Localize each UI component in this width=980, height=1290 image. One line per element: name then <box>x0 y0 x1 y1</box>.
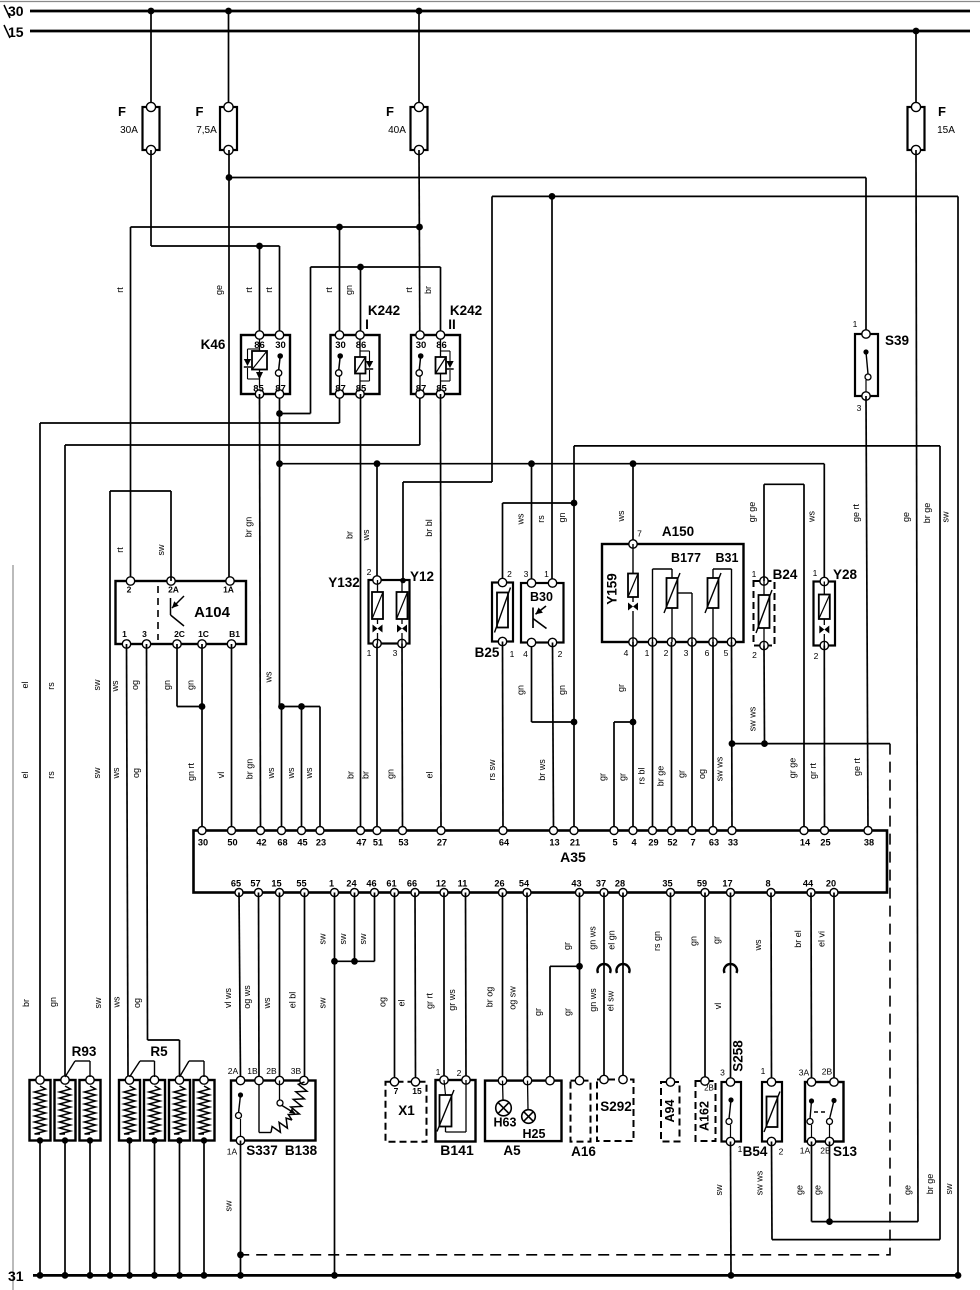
unit A94 <box>661 1078 680 1142</box>
wire Y132 pin3 gn <box>386 644 403 831</box>
label K242 II 86 (br) <box>423 286 433 294</box>
svg-text:sw: sw <box>92 767 102 779</box>
sensor B24 <box>754 577 775 650</box>
svg-text:ws: ws <box>262 997 272 1009</box>
svg-text:50: 50 <box>227 838 237 848</box>
wire A35-55 el bl <box>288 893 305 1081</box>
svg-text:K242: K242 <box>368 303 400 318</box>
svg-text:br gn: br gn <box>244 517 254 538</box>
node A35-43 branch <box>576 963 583 970</box>
label Y12 <box>410 569 434 584</box>
labels B24 <box>752 567 798 660</box>
svg-text:el gn: el gn <box>607 930 617 950</box>
page left edge mark <box>12 565 14 1290</box>
svg-text:S292: S292 <box>600 1099 632 1114</box>
bus 30 <box>4 3 970 19</box>
svg-text:br bl: br bl <box>424 519 434 537</box>
glow plug R93-2 <box>55 1076 76 1144</box>
node ws split 2 <box>298 703 305 710</box>
wire F3 down to K242II pin 30 (rt) <box>404 150 420 335</box>
svg-text:gn: gn <box>186 680 196 690</box>
svg-text:og: og <box>132 998 142 1008</box>
wire B30 pin 4 to gn <box>516 643 575 723</box>
svg-text:vl: vl <box>216 772 226 779</box>
svg-text:12: 12 <box>436 879 446 889</box>
wire rail down to A104 pin 2 (rt) <box>115 227 131 579</box>
wire ws rail y464 <box>280 464 825 582</box>
svg-text:ws: ws <box>111 767 121 779</box>
svg-text:87: 87 <box>416 384 427 395</box>
svg-text:ge: ge <box>813 1185 823 1195</box>
wire A104 pin1 ws <box>110 644 128 1077</box>
label A150 <box>637 524 694 539</box>
svg-text:ge: ge <box>901 512 911 522</box>
wire A35-24 sw <box>338 893 355 962</box>
unit A162 <box>696 1077 716 1141</box>
svg-text:30: 30 <box>198 838 208 848</box>
svg-text:30: 30 <box>335 340 346 351</box>
node bus31 <box>201 1272 208 1279</box>
svg-text:K242: K242 <box>450 303 482 318</box>
svg-text:rt: rt <box>404 287 414 293</box>
node ws-B30 <box>528 460 535 467</box>
svg-text:S39: S39 <box>885 333 909 348</box>
svg-text:B138: B138 <box>285 1143 318 1158</box>
wire ge riser <box>901 150 918 1222</box>
wire sw ws link <box>732 743 890 745</box>
wire B30 pin2 br ws <box>537 643 554 831</box>
node dashed tap <box>237 1251 244 1258</box>
svg-text:15A: 15A <box>937 125 955 136</box>
svg-text:30A: 30A <box>120 125 138 136</box>
svg-text:ge: ge <box>214 285 224 295</box>
svg-text:vl ws: vl ws <box>223 988 233 1008</box>
valve block Y132/Y12 <box>369 576 410 648</box>
svg-text:3: 3 <box>142 629 147 639</box>
svg-text:el vi: el vi <box>817 931 827 947</box>
ECU A35 <box>194 827 888 897</box>
svg-text:5: 5 <box>612 838 617 848</box>
wire A35-20 el vi <box>817 893 835 1083</box>
svg-text:59: 59 <box>697 879 707 889</box>
svg-text:30: 30 <box>275 340 286 351</box>
svg-text:gn ws: gn ws <box>588 926 598 950</box>
svg-text:3B: 3B <box>291 1066 302 1076</box>
svg-text:A35: A35 <box>560 849 586 865</box>
svg-text:7: 7 <box>637 529 642 539</box>
svg-text:rs gn: rs gn <box>652 931 662 951</box>
svg-text:K46: K46 <box>201 337 226 352</box>
svg-text:B25: B25 <box>475 645 500 660</box>
svg-text:3: 3 <box>857 403 862 413</box>
wire ws to A150 pin 7 <box>616 464 633 544</box>
switch S13 <box>805 1078 844 1146</box>
svg-text:66: 66 <box>407 879 417 889</box>
svg-text:1A: 1A <box>227 1147 238 1157</box>
glow plug R5-4 <box>194 1076 215 1144</box>
svg-text:sw: sw <box>318 997 328 1009</box>
svg-text:1A: 1A <box>800 1146 811 1156</box>
svg-text:I: I <box>365 317 369 332</box>
svg-text:F: F <box>386 104 394 119</box>
svg-text:13: 13 <box>549 838 559 848</box>
node K242I-86 branch <box>357 264 364 271</box>
svg-text:rt: rt <box>244 287 254 293</box>
svg-text:sw ws: sw ws <box>755 1170 765 1195</box>
svg-text:B141: B141 <box>440 1142 474 1158</box>
node bus31 <box>955 1272 962 1279</box>
svg-text:ws: ws <box>286 767 296 779</box>
svg-text:sw: sw <box>92 679 102 691</box>
wire S13 1A ge <box>795 1142 919 1222</box>
node bus31 <box>331 1272 338 1279</box>
svg-text:br og: br og <box>485 987 495 1008</box>
svg-text:el: el <box>20 681 30 688</box>
wire j1 to relay coil riser <box>280 267 441 414</box>
unit A16 <box>571 1076 591 1141</box>
wire A35-44 br el <box>793 893 812 1083</box>
svg-text:el: el <box>397 999 407 1006</box>
svg-text:gn: gn <box>162 680 172 690</box>
node bus30-F2 <box>225 8 232 15</box>
svg-text:X1: X1 <box>398 1103 415 1118</box>
svg-text:og: og <box>130 680 140 690</box>
svg-text:gn rt: gn rt <box>186 762 196 781</box>
node bus31 <box>728 1272 735 1279</box>
svg-text:gn ws: gn ws <box>588 988 598 1012</box>
svg-text:rt: rt <box>115 547 125 553</box>
svg-text:Y12: Y12 <box>410 569 434 584</box>
svg-text:br el: br el <box>793 930 803 948</box>
node K46-87 j1 <box>276 410 283 417</box>
svg-text:24: 24 <box>346 879 357 889</box>
svg-text:rs sw: rs sw <box>487 759 497 780</box>
svg-text:sw: sw <box>941 511 951 523</box>
wire A35-37 gn ws <box>588 893 605 1080</box>
svg-text:sw ws: sw ws <box>748 706 758 731</box>
svg-text:br: br <box>361 771 371 779</box>
wire A35-66 el <box>397 893 416 1082</box>
labels S258 <box>720 1068 743 1155</box>
wire K242I 85 br <box>345 394 361 831</box>
svg-text:ge: ge <box>795 1185 805 1195</box>
wire K242II 85 el <box>425 394 442 831</box>
svg-text:65: 65 <box>231 879 241 889</box>
svg-text:Y159: Y159 <box>605 573 620 605</box>
svg-text:30: 30 <box>416 340 427 351</box>
svg-text:og: og <box>378 997 388 1007</box>
label A16 <box>571 1144 596 1159</box>
svg-text:A5: A5 <box>503 1143 521 1158</box>
node bus30-F1 <box>148 8 155 15</box>
wire K242I-87 el chain <box>20 394 340 1077</box>
svg-text:rt: rt <box>115 287 125 293</box>
svg-text:1B: 1B <box>247 1066 258 1076</box>
svg-text:2: 2 <box>779 1147 784 1157</box>
wire S13 2B ge <box>813 1142 830 1222</box>
svg-text:og ws: og ws <box>242 985 252 1009</box>
svg-text:ws: ws <box>110 680 120 692</box>
wire A35-65 vl ws <box>223 893 241 1081</box>
wire gn rail <box>574 445 940 447</box>
svg-text:B31: B31 <box>716 551 739 565</box>
sensor B25 <box>492 578 513 645</box>
lamp H25 <box>522 1110 546 1141</box>
svg-text:R5: R5 <box>150 1044 168 1059</box>
wire to K46 pin 86 (rt) <box>244 246 274 335</box>
svg-text:F: F <box>118 104 126 119</box>
label K242 II <box>448 303 482 332</box>
wire to K242 I pin 86 (gn) <box>344 267 361 335</box>
svg-text:A94: A94 <box>663 1099 677 1122</box>
svg-text:gr: gr <box>598 773 608 781</box>
wire glow plug to bus 31 <box>129 1141 131 1276</box>
svg-text:sw: sw <box>156 544 166 556</box>
svg-text:3: 3 <box>684 648 689 658</box>
wire S337 1A sw <box>224 1141 241 1276</box>
hop connector on wire 17 <box>724 964 737 973</box>
svg-text:2: 2 <box>752 650 757 660</box>
svg-text:gn: gn <box>516 685 526 695</box>
svg-text:2: 2 <box>664 648 669 658</box>
wire A150 pin3 gr <box>677 642 693 831</box>
svg-text:rs bl: rs bl <box>637 767 647 784</box>
svg-text:2C: 2C <box>174 629 185 639</box>
svg-text:47: 47 <box>356 838 366 848</box>
svg-text:43: 43 <box>571 879 581 889</box>
wire ws split to A35 pins 68 45 23 <box>280 707 321 831</box>
svg-text:2B: 2B <box>266 1066 277 1076</box>
svg-text:28: 28 <box>615 879 625 889</box>
hop connector on wire 37 <box>598 964 611 973</box>
svg-text:gn: gn <box>48 997 58 1007</box>
svg-text:85: 85 <box>356 384 367 395</box>
wire A35-11 gr ws <box>447 893 466 1081</box>
svg-text:21: 21 <box>570 838 580 848</box>
svg-text:sw: sw <box>338 933 348 945</box>
node ws-A150 <box>630 460 637 467</box>
wire bus30 to fuse F1 <box>150 11 152 107</box>
svg-text:25: 25 <box>820 838 830 848</box>
svg-text:38: 38 <box>864 838 874 848</box>
svg-text:rs: rs <box>46 682 56 690</box>
wire A35-1 sw <box>318 893 335 1276</box>
svg-text:sw: sw <box>714 1184 724 1196</box>
node gr branch <box>630 719 637 726</box>
wire rail-right drop (sw) <box>941 196 959 1275</box>
svg-text:gn: gn <box>386 769 396 779</box>
svg-text:57: 57 <box>250 879 260 889</box>
page top edge mark <box>0 1 980 3</box>
wire A104 B1 vl <box>216 644 232 831</box>
wire A150 pin1 rs bl <box>637 642 653 831</box>
svg-text:1: 1 <box>436 1067 441 1077</box>
fuse F3 40A <box>386 102 427 154</box>
hop connector on wire 28 <box>617 964 630 973</box>
glow plug R5-3 <box>169 1076 190 1144</box>
wire A150 pin2 br ge <box>656 642 672 831</box>
wire sw join <box>335 960 375 962</box>
svg-text:14: 14 <box>800 838 811 848</box>
svg-text:1A: 1A <box>223 585 234 595</box>
wire A35-15 ws <box>262 893 280 1081</box>
svg-text:33: 33 <box>728 838 738 848</box>
svg-text:85: 85 <box>436 384 447 395</box>
wire A104 pin3 og <box>130 644 180 1077</box>
svg-text:7: 7 <box>690 838 695 848</box>
node sw ws branch <box>729 740 736 747</box>
relay K46 <box>241 331 290 398</box>
svg-text:31: 31 <box>8 1268 24 1284</box>
svg-text:br ws: br ws <box>537 759 547 781</box>
label K46 <box>201 337 226 352</box>
control unit A104 <box>116 577 247 648</box>
svg-text:S13: S13 <box>833 1144 858 1159</box>
wire to K242 I pin 30 (rt) <box>324 227 340 335</box>
wire branch to S39 pin 1 <box>229 178 866 331</box>
svg-text:gr: gr <box>618 773 628 781</box>
wire S258 pin1 sw <box>714 1142 731 1276</box>
wire ws to B30 pin 3 <box>516 464 532 583</box>
wire glow plug to bus 31 <box>179 1141 181 1276</box>
svg-text:87: 87 <box>335 384 346 395</box>
relay K242 I <box>331 331 380 398</box>
svg-text:H63: H63 <box>494 1116 517 1130</box>
svg-text:B24: B24 <box>773 567 798 582</box>
svg-text:ws: ws <box>516 513 526 525</box>
wire F2 down to A104 pin 1A (ge) <box>214 150 229 579</box>
node bus31 <box>87 1272 94 1279</box>
svg-text:og sw: og sw <box>508 986 518 1010</box>
wire A35-59 gn <box>689 893 706 1082</box>
svg-text:44: 44 <box>803 879 814 889</box>
wire A104 1C gn <box>186 644 203 831</box>
label ws below K46-87 <box>264 671 274 683</box>
wire S39 pin3 to A35 pin 38 (ge rt) <box>851 396 868 831</box>
svg-text:40A: 40A <box>388 125 406 136</box>
svg-text:ge rt: ge rt <box>851 503 861 522</box>
svg-text:gn: gn <box>557 685 567 695</box>
svg-text:br gn: br gn <box>245 759 255 780</box>
glow plug R5-1 <box>119 1076 140 1144</box>
valve Y28 <box>814 577 836 649</box>
svg-text:A162: A162 <box>698 1101 712 1131</box>
svg-text:52: 52 <box>667 838 677 848</box>
labels Y28 <box>813 567 858 661</box>
node bus31 <box>237 1272 244 1279</box>
svg-text:sw: sw <box>318 933 328 945</box>
svg-text:gr ge: gr ge <box>747 502 757 523</box>
svg-text:rs: rs <box>46 771 56 779</box>
svg-text:sw: sw <box>93 997 103 1009</box>
wire B24 pin1 gr ge <box>747 484 804 830</box>
svg-text:ws: ws <box>112 996 122 1008</box>
wire glow plug to bus 31 <box>154 1141 156 1276</box>
svg-text:A104: A104 <box>194 604 231 621</box>
svg-text:ws: ws <box>304 767 314 779</box>
svg-text:68: 68 <box>277 838 287 848</box>
svg-text:3: 3 <box>524 569 529 579</box>
wire B24 pin2 sw ws <box>748 646 765 744</box>
svg-text:gr: gr <box>533 1008 543 1016</box>
svg-text:Y28: Y28 <box>833 567 858 582</box>
node bus31 <box>176 1272 183 1279</box>
svg-text:61: 61 <box>386 879 396 889</box>
wire gn to B25 pin 2 <box>503 503 575 583</box>
svg-text:3: 3 <box>393 648 398 658</box>
switch S39 <box>855 330 878 400</box>
svg-text:br: br <box>345 531 355 539</box>
node bus31 <box>107 1272 114 1279</box>
svg-text:gr ws: gr ws <box>447 989 457 1011</box>
wire rail to B30 pin 1 (rs) <box>536 196 552 583</box>
svg-text:1: 1 <box>510 649 515 659</box>
svg-text:15: 15 <box>271 879 281 889</box>
svg-text:8: 8 <box>765 879 770 889</box>
svg-text:A16: A16 <box>571 1144 596 1159</box>
labels B141 <box>436 1067 474 1158</box>
node bus31 <box>37 1272 44 1279</box>
svg-text:sw: sw <box>358 933 368 945</box>
wire K242II-87 rs chain <box>46 394 420 1077</box>
wire F1 to K46 <box>151 150 280 335</box>
svg-text:gn: gn <box>557 512 567 522</box>
svg-text:15: 15 <box>412 1086 422 1096</box>
wire A35-26 br og <box>485 893 503 1081</box>
svg-text:og: og <box>697 769 707 779</box>
svg-text:gr ge: gr ge <box>788 758 798 779</box>
node Y12 feed <box>400 578 406 584</box>
wire B54 pin2 sw ws <box>755 1142 941 1240</box>
svg-text:B177: B177 <box>671 551 701 565</box>
node ws-Y132 <box>374 460 381 467</box>
label K242 I <box>365 303 400 332</box>
label Y132 <box>328 567 371 590</box>
node ws split 1 <box>278 703 285 710</box>
valve Y159 <box>605 544 639 642</box>
wire K46 87 down <box>279 394 281 707</box>
svg-text:2: 2 <box>814 651 819 661</box>
svg-text:B30: B30 <box>530 590 553 604</box>
svg-text:87: 87 <box>275 384 286 395</box>
svg-text:S337: S337 <box>246 1143 278 1158</box>
svg-text:el sw: el sw <box>606 990 616 1011</box>
svg-text:vl: vl <box>713 1003 723 1010</box>
node gn-B25 <box>571 500 578 507</box>
node bus31 <box>62 1272 69 1279</box>
svg-text:Y132: Y132 <box>328 575 360 590</box>
svg-text:64: 64 <box>499 838 510 848</box>
svg-text:1C: 1C <box>198 629 209 639</box>
wire gn vertical to A35 pin 21 <box>557 446 574 831</box>
svg-text:gn: gn <box>689 936 699 946</box>
node bus15-F4 <box>913 28 920 35</box>
svg-text:br ge: br ge <box>925 1174 935 1195</box>
svg-text:2: 2 <box>127 585 132 595</box>
svg-text:el: el <box>425 771 435 778</box>
wire bus15 to fuse F4 <box>915 31 917 107</box>
glow plug R93-3 <box>80 1076 101 1144</box>
svg-text:37: 37 <box>596 879 606 889</box>
connector X1 <box>386 1078 427 1142</box>
svg-text:2A: 2A <box>228 1066 239 1076</box>
wire A104 2A sw chain <box>92 491 171 1275</box>
wire bus30 to fuse F2 <box>228 11 230 107</box>
wire glow plug to bus 31 <box>39 1141 41 1276</box>
svg-text:gr: gr <box>677 770 687 778</box>
wire A35-46 sw <box>358 893 375 962</box>
lamp unit A5 <box>485 1076 562 1141</box>
